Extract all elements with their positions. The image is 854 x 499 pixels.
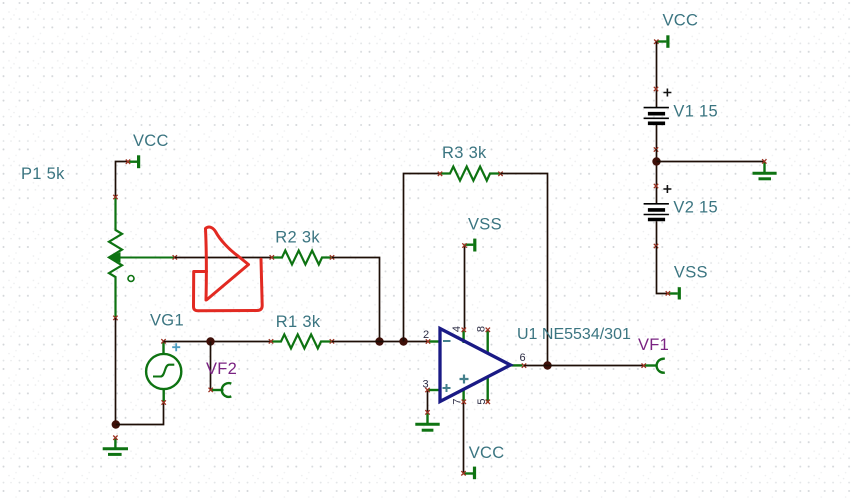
svg-text:5: 5 xyxy=(476,398,488,404)
svg-text:7: 7 xyxy=(452,398,464,404)
wire: R2 to input node xyxy=(332,258,380,342)
battery V2 xyxy=(644,184,672,248)
ground (bottom left) xyxy=(103,436,128,455)
junction: bottom-left node xyxy=(112,420,120,428)
wire: R1 to op-amp pin 2 xyxy=(332,341,429,343)
resistor R2 xyxy=(270,251,335,265)
potentiometer P1 xyxy=(109,195,177,320)
probe VF1 xyxy=(642,359,665,373)
wire: bottom node to VG1 bottom xyxy=(116,403,164,425)
wire: P1 wiper to R2 xyxy=(175,257,272,259)
power VCC (below op-amp) xyxy=(461,467,474,480)
wire: VF2 drop xyxy=(210,342,212,391)
svg-text:R2 3k: R2 3k xyxy=(275,229,320,247)
wire: VG1 to R1 (input line) xyxy=(164,341,272,343)
wire: VCC to V1 xyxy=(656,42,658,90)
power VCC (left) xyxy=(126,155,139,168)
wire: P1 bottom to ground node xyxy=(115,318,117,425)
svg-text:V2 15: V2 15 xyxy=(673,199,718,217)
svg-text:R1 3k: R1 3k xyxy=(276,313,321,331)
probe VF2 xyxy=(209,383,232,397)
resistor R1 xyxy=(269,334,334,348)
polarity + of VG1 xyxy=(172,343,180,351)
svg-text:VG1: VG1 xyxy=(150,312,184,330)
junction: output node xyxy=(543,361,551,369)
svg-text:VSS: VSS xyxy=(468,216,502,234)
svg-text:VCC: VCC xyxy=(663,12,699,30)
wire: output to VF1 xyxy=(524,365,644,367)
annotation: red scribble arrow xyxy=(194,227,263,311)
power VSS (above op-amp) xyxy=(462,239,475,252)
wire: V1 to V2 xyxy=(656,149,658,186)
svg-text:8: 8 xyxy=(476,326,488,332)
svg-text:U1 NE5534/301: U1 NE5534/301 xyxy=(517,326,631,343)
wire: pin 3 to ground xyxy=(427,390,429,412)
junction: supply midpoint xyxy=(652,157,660,165)
svg-text:VCC: VCC xyxy=(133,132,169,150)
svg-text:P1 5k: P1 5k xyxy=(21,165,65,183)
battery V1 xyxy=(644,87,672,152)
power VSS (bottom right) xyxy=(666,287,680,299)
wire: R3 left leg xyxy=(404,174,441,342)
wire: VCC rail to P1 top xyxy=(116,162,129,198)
wire: VSS to pin 4 xyxy=(464,246,466,330)
op-amp U1 xyxy=(425,328,526,404)
svg-text:2: 2 xyxy=(423,329,429,341)
svg-text:VCC: VCC xyxy=(469,444,505,462)
svg-text:6: 6 xyxy=(520,352,526,364)
wire: pin 7 to VCC xyxy=(463,402,465,474)
wire: supply midpoint to ground xyxy=(657,161,765,163)
svg-text:VF1: VF1 xyxy=(638,336,669,354)
power VCC (top right) xyxy=(654,35,668,48)
svg-text:4: 4 xyxy=(451,326,463,332)
svg-text:R3 3k: R3 3k xyxy=(442,144,487,162)
wire: R3 right leg to output node xyxy=(501,174,548,366)
svg-text:V1 15: V1 15 xyxy=(673,103,718,121)
ground (op-amp non-inverting input) xyxy=(415,410,439,430)
svg-text:VSS: VSS xyxy=(674,264,708,282)
junction: R2 / input node xyxy=(375,337,383,345)
wire: V2 to VSS xyxy=(657,246,669,294)
resistor R3 xyxy=(438,167,503,181)
generator VG1 xyxy=(146,339,181,405)
svg-text:VF2: VF2 xyxy=(206,360,237,378)
junction: R3 / input node xyxy=(399,337,407,345)
ground (supply midpoint) xyxy=(753,159,777,179)
svg-text:3: 3 xyxy=(423,379,429,391)
junction: VG1 / VF2 node xyxy=(206,337,214,345)
